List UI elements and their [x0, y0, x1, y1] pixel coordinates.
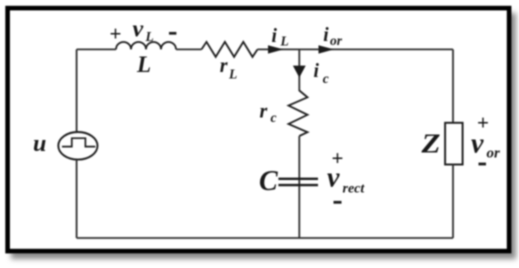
label - (vor): [479, 163, 487, 166]
inductor L: [116, 42, 176, 49]
impedance Z box: [445, 123, 463, 165]
wire center branch upper: [298, 49, 300, 91]
label - (vL): [169, 32, 176, 35]
resistor rc: [289, 91, 308, 137]
resistor rL: [202, 42, 258, 57]
capacitor C top plate: [278, 178, 318, 180]
svg-text:L: L: [136, 52, 151, 77]
svg-text:Z: Z: [420, 129, 440, 159]
svg-text:rect: rect: [343, 182, 366, 197]
wire between L and rL: [176, 48, 202, 50]
svg-text:L: L: [145, 29, 154, 44]
svg-text:v: v: [133, 17, 144, 43]
svg-text:or: or: [487, 146, 501, 162]
wire right vertical lower: [452, 165, 454, 239]
wire bottom horizontal: [77, 237, 453, 239]
svg-text:i: i: [323, 25, 329, 46]
wire center branch lower: [298, 136, 300, 238]
arrow ior: [319, 45, 335, 53]
svg-text:c: c: [271, 110, 277, 125]
wire left vertical lower: [76, 160, 78, 238]
wire left vertical upper: [76, 49, 78, 132]
source pulse waveform: [62, 138, 95, 146]
svg-text:+: +: [110, 21, 122, 45]
svg-text:u: u: [33, 131, 46, 157]
svg-text:C: C: [259, 166, 278, 197]
svg-text:v: v: [471, 128, 484, 159]
arrow ic (down): [293, 66, 306, 78]
wire rL to top-right corner: [258, 48, 454, 50]
wire right vertical upper: [452, 49, 454, 122]
arrow iL: [268, 45, 284, 53]
svg-text:r: r: [220, 55, 228, 77]
svg-text:L: L: [228, 66, 237, 81]
capacitor C bottom plate: [278, 184, 318, 186]
svg-text:i: i: [272, 26, 278, 47]
svg-text:c: c: [323, 71, 329, 86]
source u ellipse: [58, 132, 97, 160]
svg-text:L: L: [280, 34, 289, 49]
svg-text:i: i: [314, 61, 320, 82]
label - (vrect): [334, 201, 342, 204]
svg-text:v: v: [327, 163, 340, 194]
wire top-left horizontal: [77, 48, 116, 50]
svg-text:r: r: [260, 101, 268, 123]
svg-text:or: or: [330, 33, 343, 48]
